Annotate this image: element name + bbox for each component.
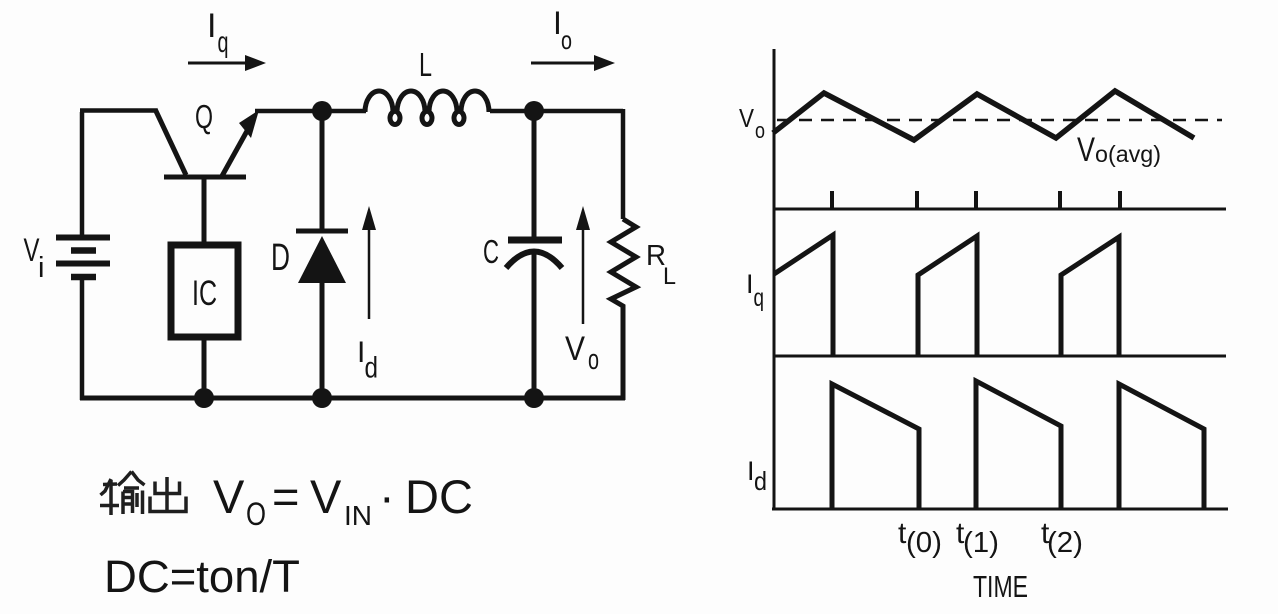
svg-text:i: i: [38, 252, 44, 284]
svg-text:o: o: [755, 118, 765, 143]
svg-text:I: I: [746, 269, 754, 299]
svg-text:DC=ton/T: DC=ton/T: [104, 551, 300, 602]
svg-text:L: L: [419, 46, 432, 83]
svg-text:(2): (2): [1047, 527, 1083, 559]
svg-text:O: O: [246, 496, 266, 532]
svg-text:·: ·: [379, 470, 395, 523]
svg-text:q: q: [218, 26, 229, 59]
svg-text:o: o: [561, 25, 572, 55]
svg-text:d: d: [365, 352, 379, 385]
svg-text:q: q: [754, 284, 765, 312]
svg-text:V: V: [739, 103, 755, 133]
svg-text:C: C: [483, 233, 499, 270]
svg-text:I: I: [207, 7, 216, 45]
svg-text:V: V: [310, 470, 342, 523]
svg-text:V: V: [213, 470, 245, 523]
svg-text:(0): (0): [906, 527, 942, 559]
svg-text:(1): (1): [963, 527, 999, 559]
svg-text:L: L: [663, 263, 676, 290]
svg-text:=: =: [272, 470, 299, 523]
svg-text:D: D: [271, 237, 290, 279]
svg-text:o(avg): o(avg): [1095, 141, 1161, 167]
svg-text:TIME: TIME: [973, 569, 1028, 604]
svg-text:d: d: [754, 466, 767, 496]
svg-text:o: o: [588, 344, 599, 376]
svg-text:DC: DC: [405, 470, 473, 523]
svg-text:IN: IN: [344, 500, 372, 531]
svg-text:Q: Q: [195, 98, 213, 135]
svg-text:V: V: [1077, 131, 1095, 169]
svg-text:IC: IC: [192, 274, 217, 313]
svg-text:V: V: [565, 330, 585, 368]
